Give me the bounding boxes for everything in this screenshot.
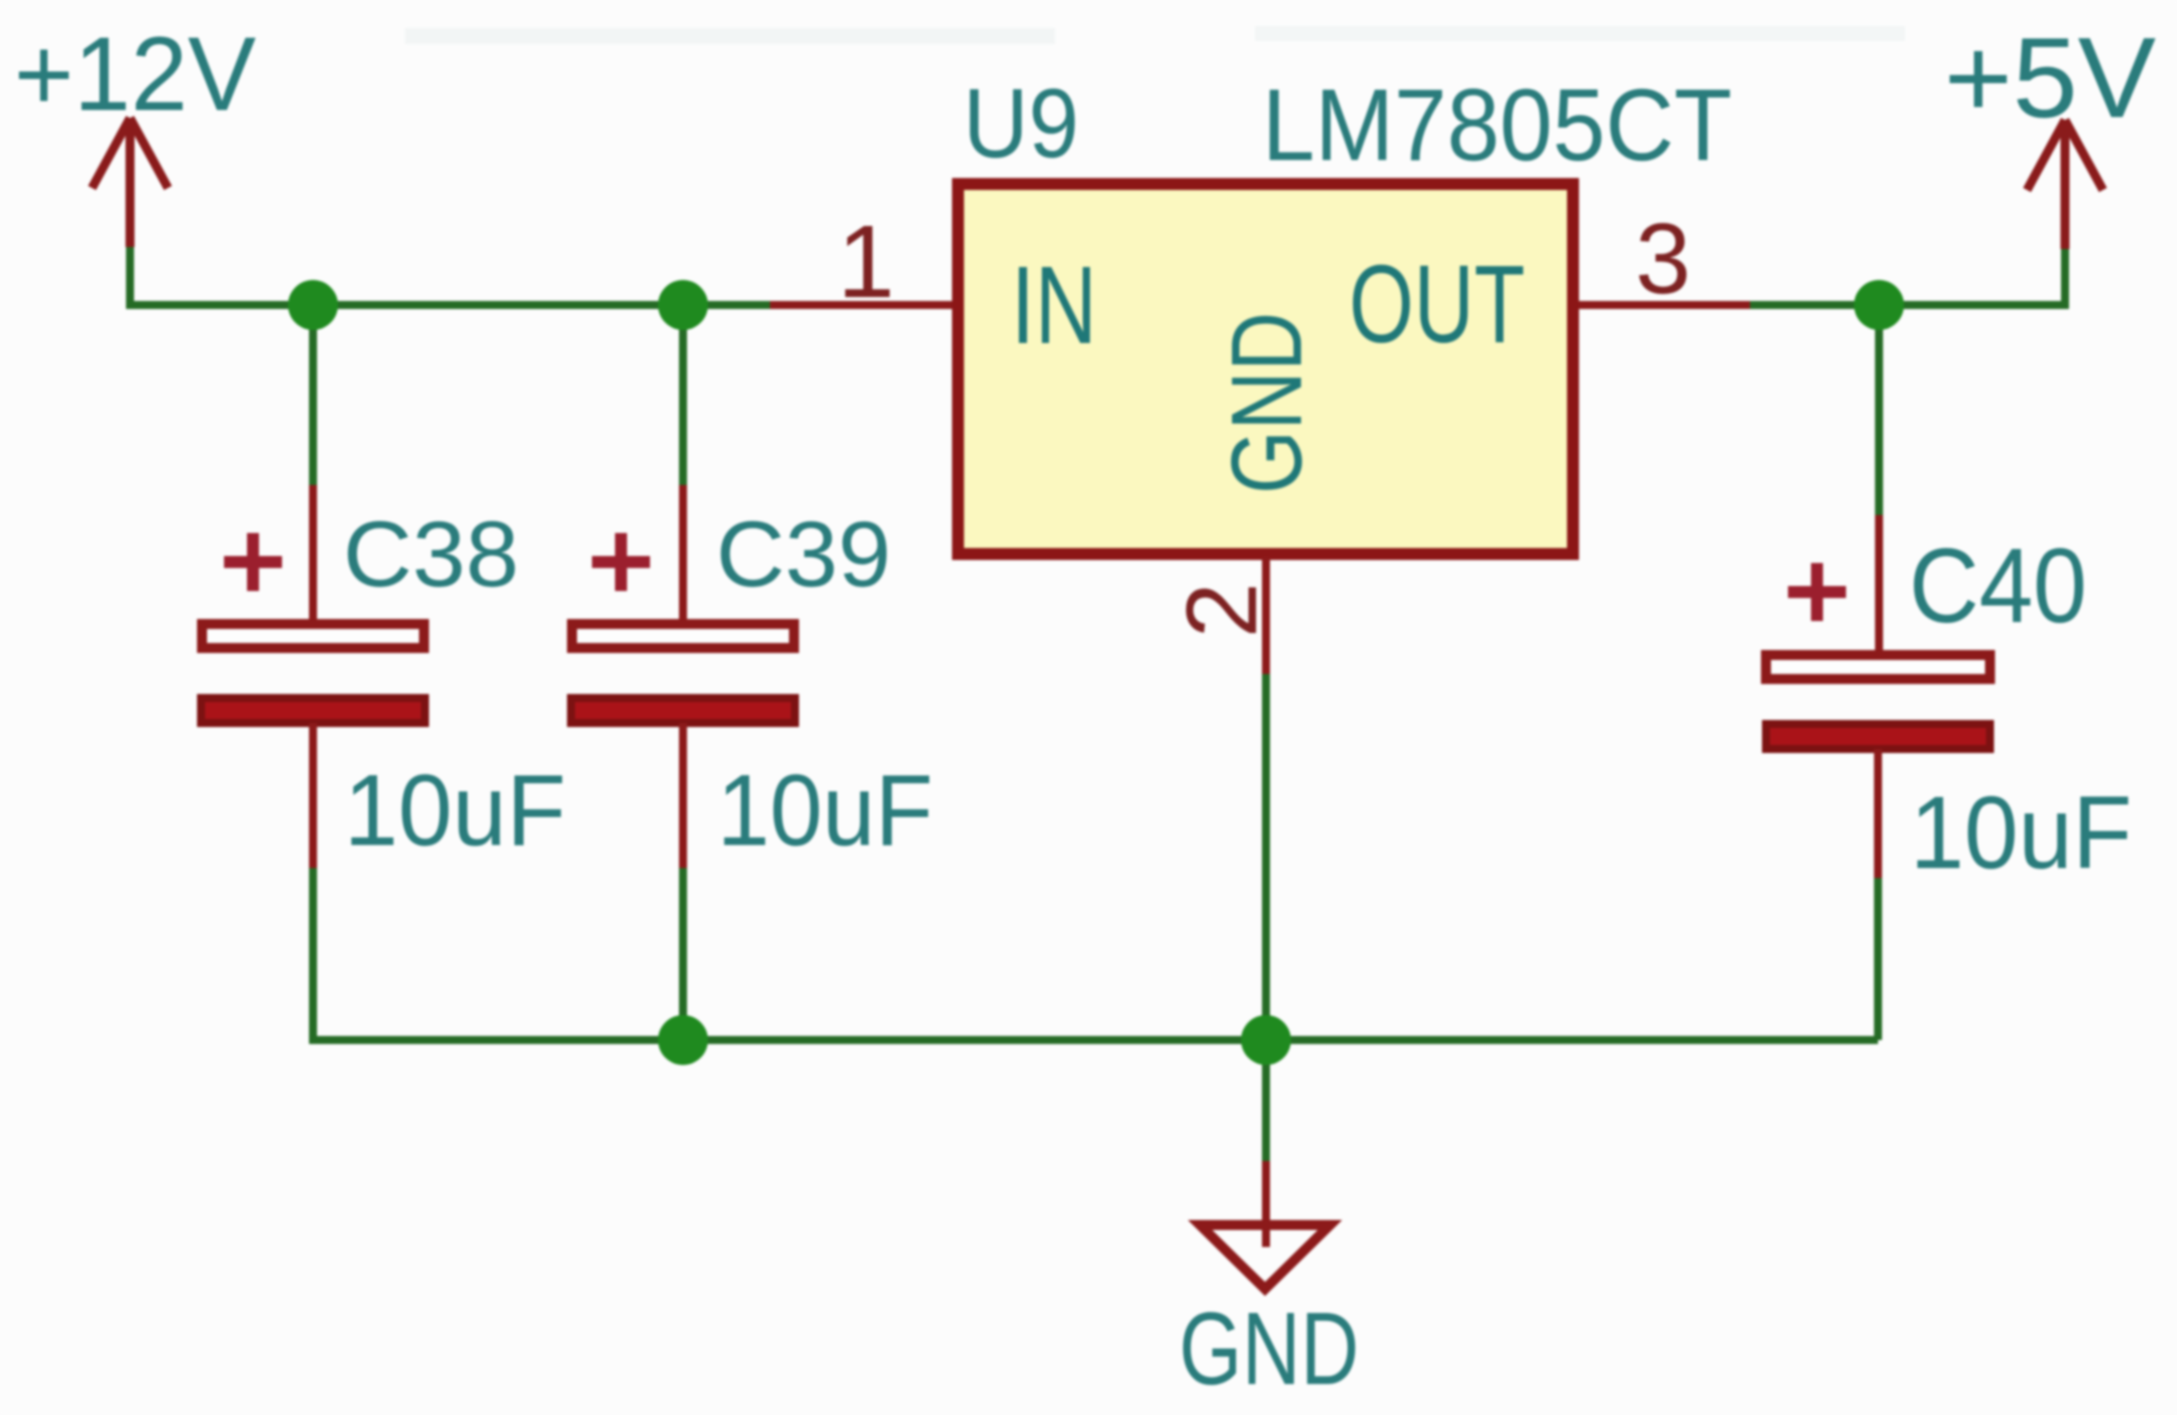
capacitor C40 pin bottom (1874, 749, 1882, 878)
ground symbol (1200, 1225, 1330, 1289)
capacitor C40 plus (1788, 563, 1846, 621)
junction node top C40 (1854, 280, 1904, 330)
junction node top C39 (658, 280, 708, 330)
capacitor C38 plus (224, 533, 282, 591)
capacitor C38 bottom plate (201, 698, 425, 723)
capacitor C38 pin top (309, 485, 317, 623)
svg-text:IN: IN (1011, 244, 1097, 367)
power symbol +12V arrow (92, 118, 168, 247)
svg-text:C38: C38 (343, 502, 519, 606)
svg-text:2: 2 (1166, 582, 1278, 638)
wire C38 top drop (309, 305, 317, 487)
junction node bottom C39 (658, 1015, 708, 1065)
power symbol +5V arrow (2027, 120, 2103, 249)
svg-text:10uF: 10uF (717, 755, 933, 867)
capacitor C39 pin top (679, 485, 687, 623)
capacitor C40 pin top (1875, 515, 1883, 654)
op U9 regulator body LM7805CT (958, 184, 1573, 554)
ground stub (1262, 1161, 1270, 1247)
capacitor C39 top plate (572, 624, 794, 648)
svg-text:U9: U9 (963, 68, 1079, 178)
svg-text:3: 3 (1635, 203, 1691, 315)
capacitor C38 top plate (202, 624, 424, 648)
faint cropped-text artifact top left (405, 28, 1055, 44)
capacitor C40 bottom plate (1766, 724, 1990, 749)
wire pin3 to +5V (1748, 247, 2065, 305)
wire top bus +12V (130, 245, 772, 305)
wire C38 bottom (309, 866, 317, 1040)
faint cropped-text artifact top right (1255, 26, 1905, 41)
wire C39 bottom (679, 866, 687, 1040)
svg-text:C40: C40 (1909, 527, 2087, 645)
wire C40 bottom (1874, 876, 1882, 1040)
svg-text:+12V: +12V (14, 16, 256, 133)
wire C39 top drop (679, 305, 687, 487)
svg-text:+5V: +5V (1944, 15, 2156, 142)
capacitor C39 bottom plate (571, 698, 795, 723)
wire C40 top drop (1875, 305, 1883, 517)
svg-text:C39: C39 (716, 502, 891, 606)
junction node top C38 (288, 280, 338, 330)
pin 1 wire IN (770, 301, 952, 309)
wire bottom bus GND (313, 1036, 1878, 1040)
capacitor C40 top plate (1766, 655, 1990, 679)
capacitor C39 pin bottom (679, 723, 687, 868)
svg-text:OUT: OUT (1349, 243, 1525, 366)
svg-text:LM7805CT: LM7805CT (1262, 68, 1732, 182)
svg-text:1: 1 (837, 204, 894, 319)
pin 3 wire OUT (1579, 301, 1750, 309)
capacitor C39 plus (592, 533, 650, 591)
svg-text:GND: GND (1179, 1291, 1359, 1406)
wire pin2 to gnd (1262, 672, 1270, 1163)
capacitor C38 pin bottom (309, 723, 317, 868)
svg-text:10uF: 10uF (344, 755, 566, 867)
pin 2 wire GND (1262, 557, 1270, 674)
svg-text:10uF: 10uF (1910, 775, 2132, 890)
svg-text:GND: GND (1211, 312, 1323, 494)
junction node bottom GND (1241, 1015, 1291, 1065)
